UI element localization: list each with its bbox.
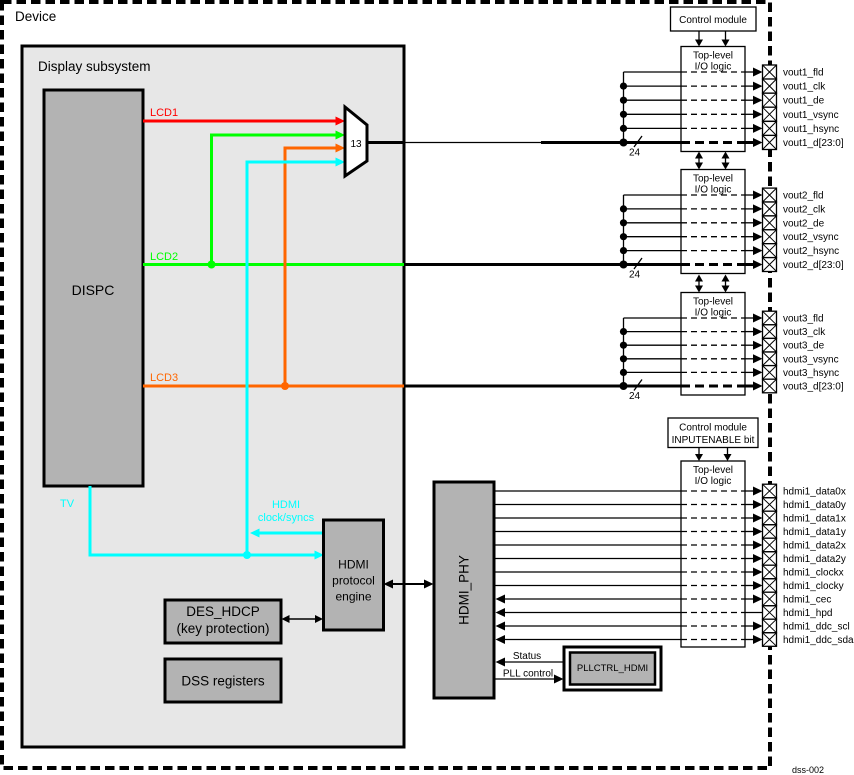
pad vout2_fld — [763, 188, 777, 202]
junction vout1_vsync — [620, 111, 627, 118]
DSS registers block — [165, 659, 281, 702]
wire hdmi1_data2y row — [494, 558, 681, 560]
svg-text:LCD3: LCD3 — [150, 372, 178, 384]
wire vout3_fld row — [624, 317, 682, 319]
wire vout1_d[23:0] row — [681, 141, 745, 144]
wire vout1 24-bit bus — [541, 141, 681, 144]
svg-text:engine: engine — [335, 590, 371, 604]
svg-text:vout2_hsync: vout2_hsync — [783, 246, 839, 257]
pad vout2_hsync — [763, 244, 777, 258]
pad vout3_vsync — [763, 352, 777, 366]
junction vout3_vsync — [620, 355, 627, 362]
junction LCD3 — [281, 382, 289, 390]
svg-text:hdmi1_clocky: hdmi1_clocky — [783, 581, 844, 592]
wire vout3_de row — [624, 344, 682, 346]
svg-text:24: 24 — [629, 270, 641, 281]
svg-text:24: 24 — [629, 391, 641, 402]
wire TV (cyan) DISPC down to HDMI protocol engine — [90, 486, 317, 555]
wire hdmi1_clocky row — [494, 585, 681, 587]
wire engine to HDMI_PHY — [391, 583, 426, 585]
wire control module to I/O logic 1 — [698, 31, 700, 41]
svg-text:vout1_clk: vout1_clk — [783, 82, 826, 93]
svg-text:vout1_de: vout1_de — [783, 96, 825, 107]
svg-text:hdmi1_data0x: hdmi1_data0x — [783, 487, 846, 498]
pad vout1_d[23:0] — [763, 135, 777, 149]
wire LCD3 branch up to mux — [285, 148, 337, 386]
svg-text:hdmi1_data2x: hdmi1_data2x — [783, 541, 846, 552]
wire vout1_hsync row — [624, 127, 682, 129]
wire vout2_de row — [624, 222, 682, 224]
svg-text:24: 24 — [629, 148, 641, 159]
svg-text:PLLCTRL_HDMI: PLLCTRL_HDMI — [577, 663, 648, 674]
junction vout2_hsync — [620, 247, 627, 254]
svg-text:vout1_hsync: vout1_hsync — [783, 124, 839, 135]
svg-text:Top-level: Top-level — [693, 174, 733, 185]
svg-text:Display subsystem: Display subsystem — [38, 59, 151, 74]
pad vout3_de — [763, 338, 777, 352]
wire LCD1 (red) DISPC to mux — [143, 120, 337, 123]
svg-text:HDMI_PHY: HDMI_PHY — [457, 555, 472, 625]
svg-text:vout1_d[23:0]: vout1_d[23:0] — [783, 138, 844, 149]
junction vout2_d[23:0] bus — [620, 261, 628, 269]
svg-text:vout3_fld: vout3_fld — [783, 314, 824, 325]
pad hdmi1_data2y — [763, 552, 777, 566]
DISPC block — [44, 90, 143, 486]
pad vout1_vsync — [763, 107, 777, 121]
svg-text:dss-002: dss-002 — [792, 765, 824, 775]
mux 13:1 — [345, 107, 367, 176]
svg-text:vout2_fld: vout2_fld — [783, 191, 824, 202]
svg-text:Control module: Control module — [679, 15, 747, 26]
wire I/O logic 2 to 3 — [698, 279, 700, 288]
pad vout3_hsync — [763, 366, 777, 380]
wire vout2_d[23:0] row — [681, 263, 745, 266]
svg-text:LCD2: LCD2 — [150, 251, 178, 263]
wire vout1_vsync row — [624, 113, 682, 115]
svg-text:vout3_d[23:0]: vout3_d[23:0] — [783, 382, 844, 393]
Top-level I/O logic box hdmi — [681, 461, 745, 647]
svg-text:I/O logic: I/O logic — [695, 476, 732, 487]
svg-text:LCD1: LCD1 — [150, 107, 178, 119]
svg-text:protocol: protocol — [332, 574, 375, 588]
wire vout3 24-bit bus — [404, 385, 681, 388]
svg-text:vout2_clk: vout2_clk — [783, 204, 826, 215]
svg-text:vout2_d[23:0]: vout2_d[23:0] — [783, 260, 844, 271]
junction vout3_d[23:0] bus — [620, 382, 628, 390]
junction vout3_de — [620, 342, 627, 349]
wire I/O logic 1 to 2 — [698, 156, 700, 164]
svg-text:DES_HDCP: DES_HDCP — [186, 604, 260, 619]
pad vout3_clk — [763, 325, 777, 339]
Top-level I/O logic box vout1 — [681, 47, 745, 152]
wire INPUTENABLE to I/O logic 4 — [698, 448, 700, 457]
wire hdmi1_hpd row — [502, 612, 681, 614]
svg-text:vout2_vsync: vout2_vsync — [783, 232, 839, 243]
wire hdmi1_ddc_sda row — [502, 639, 681, 641]
wire vout3 fanout vertical — [623, 318, 625, 386]
wire vout2 fanout vertical — [623, 195, 625, 265]
svg-text:I/O logic: I/O logic — [695, 308, 732, 319]
pad vout3_d[23:0] — [763, 379, 777, 393]
pad vout2_de — [763, 216, 777, 230]
DES_HDCP block — [165, 600, 281, 643]
pad vout1_hsync — [763, 121, 777, 135]
pad hdmi1_clocky — [763, 579, 777, 593]
pad hdmi1_ddc_sda — [763, 633, 777, 647]
bus width marker 24 — [634, 136, 642, 147]
junction vout1_hsync — [620, 125, 627, 132]
svg-text:Control module: Control module — [679, 423, 747, 434]
wire hdmi1_clockx row — [494, 571, 681, 573]
wire hdmi1_data1y row — [494, 531, 681, 533]
svg-text:DISPC: DISPC — [72, 282, 115, 298]
wire hdmi1_data0x row — [494, 490, 681, 492]
pad vout3_fld — [763, 311, 777, 325]
svg-text:I/O logic: I/O logic — [695, 62, 732, 73]
PLLCTRL_HDMI block — [564, 647, 661, 690]
svg-text:PLL control: PLL control — [503, 669, 553, 680]
pad hdmi1_cec — [763, 592, 777, 606]
pad vout1_fld — [763, 65, 777, 79]
svg-text:vout1_fld: vout1_fld — [783, 68, 824, 79]
wire vout2_vsync row — [624, 236, 682, 238]
svg-text:Top-level: Top-level — [693, 465, 733, 476]
wire vout3_clk row — [624, 331, 682, 333]
svg-text:hdmi1_clockx: hdmi1_clockx — [783, 568, 844, 579]
wire DES_HDCP to engine — [289, 618, 317, 620]
svg-text:hdmi1_data0y: hdmi1_data0y — [783, 500, 846, 511]
svg-text:I/O logic: I/O logic — [695, 185, 732, 196]
Top-level I/O logic box vout2 — [681, 170, 745, 274]
wire TV vertical branch up to mux — [247, 162, 337, 555]
svg-text:INPUTENABLE bit: INPUTENABLE bit — [672, 435, 755, 446]
junction vout2_de — [620, 219, 627, 226]
junction vout3_clk — [620, 328, 627, 335]
wire vout2_clk row — [624, 208, 682, 210]
svg-text:clock/syncs: clock/syncs — [258, 512, 315, 524]
pad vout1_clk — [763, 79, 777, 93]
svg-text:hdmi1_cec: hdmi1_cec — [783, 595, 831, 606]
svg-text:HDMI: HDMI — [338, 558, 369, 572]
HDMI protocol engine block — [324, 520, 384, 630]
wire mux output to vout1 bus — [367, 141, 404, 144]
wire vout1_clk row — [624, 85, 682, 87]
svg-text:HDMI: HDMI — [272, 499, 300, 511]
svg-text:vout3_clk: vout3_clk — [783, 327, 826, 338]
junction TV — [243, 551, 251, 559]
svg-text:vout3_vsync: vout3_vsync — [783, 354, 839, 365]
Top-level I/O logic box vout3 — [681, 293, 745, 396]
svg-text:hdmi1_data1x: hdmi1_data1x — [783, 514, 846, 525]
pad hdmi1_clockx — [763, 565, 777, 579]
svg-text:Top-level: Top-level — [693, 51, 733, 62]
svg-text:vout2_de: vout2_de — [783, 218, 825, 229]
pad vout1_de — [763, 93, 777, 107]
pad hdmi1_data1x — [763, 511, 777, 525]
svg-text:hdmi1_ddc_scl: hdmi1_ddc_scl — [783, 622, 850, 633]
wire hdmi1_data2x row — [494, 544, 681, 546]
pad hdmi1_data0y — [763, 498, 777, 512]
svg-text:vout1_vsync: vout1_vsync — [783, 110, 839, 121]
wire vout2 24-bit bus — [404, 263, 681, 266]
wire vout1_fld row — [624, 71, 682, 73]
bus width marker 24 — [634, 258, 642, 269]
svg-text:hdmi1_hpd: hdmi1_hpd — [783, 608, 832, 619]
svg-text:hdmi1_data2y: hdmi1_data2y — [783, 554, 846, 565]
wire vout3_d[23:0] row — [681, 385, 745, 388]
wire LCD2 (green) DISPC to device edge — [143, 263, 404, 266]
wire vout3_hsync row — [624, 371, 682, 373]
wire hdmi1_cec row — [502, 598, 681, 600]
svg-text:vout3_de: vout3_de — [783, 341, 825, 352]
svg-text:Top-level: Top-level — [693, 297, 733, 308]
wire vout3_vsync row — [624, 358, 682, 360]
svg-text:Device: Device — [15, 9, 56, 24]
wire Status PLLCTRL to PHY — [503, 661, 564, 663]
junction LCD2 — [208, 261, 216, 269]
junction vout2_vsync — [620, 233, 627, 240]
svg-text:13: 13 — [350, 139, 362, 150]
bus width marker 24 — [634, 380, 642, 391]
svg-text:hdmi1_ddc_sda: hdmi1_ddc_sda — [783, 635, 854, 646]
wire LCD2 branch up to mux — [212, 135, 338, 265]
wire HDMI clock/syncs from engine — [258, 532, 325, 535]
wire PLL control PHY to PLLCTRL — [494, 678, 555, 680]
junction vout1_clk — [620, 83, 627, 90]
svg-text:Status: Status — [513, 651, 541, 662]
junction vout3_hsync — [620, 369, 627, 376]
wire vout1_de row — [624, 99, 682, 101]
junction vout1_de — [620, 97, 627, 104]
svg-text:hdmi1_data1y: hdmi1_data1y — [783, 527, 846, 538]
Control module INPUTENABLE bit box — [668, 418, 758, 448]
Display subsystem box — [22, 46, 404, 747]
pad hdmi1_data2x — [763, 538, 777, 552]
svg-text:vout3_hsync: vout3_hsync — [783, 368, 839, 379]
junction vout2_clk — [620, 205, 627, 212]
svg-text:(key protection): (key protection) — [176, 621, 269, 636]
wire hdmi1_data1x row — [494, 517, 681, 519]
pad hdmi1_data1y — [763, 525, 777, 539]
wire vout2_fld row — [624, 194, 682, 196]
junction vout1_d[23:0] bus — [620, 139, 628, 147]
wire vout1 fanout vertical — [623, 72, 625, 143]
svg-text:DSS registers: DSS registers — [181, 674, 265, 689]
wire LCD3 (orange) DISPC to device edge — [143, 385, 404, 388]
HDMI_PHY block — [434, 482, 494, 698]
wire hdmi1_data0y row — [494, 504, 681, 506]
pad vout2_vsync — [763, 230, 777, 244]
wire hdmi1_ddc_scl row — [502, 625, 681, 627]
pad hdmi1_hpd — [763, 606, 777, 620]
wire vout2_hsync row — [624, 250, 682, 252]
Control module box — [671, 7, 757, 31]
pad hdmi1_ddc_scl — [763, 619, 777, 633]
svg-text:TV: TV — [60, 498, 75, 510]
pad vout2_d[23:0] — [763, 258, 777, 272]
pad hdmi1_data0x — [763, 484, 777, 498]
pad vout2_clk — [763, 202, 777, 216]
